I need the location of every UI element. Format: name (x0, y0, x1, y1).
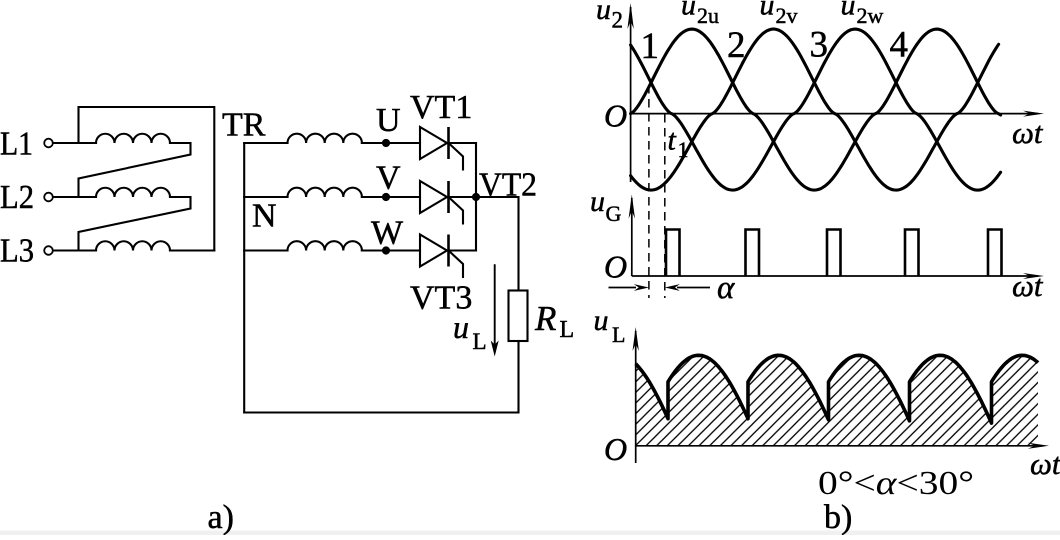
svg-text:ωt: ωt (1030, 446, 1060, 481)
svg-text:VT1: VT1 (410, 89, 472, 126)
svg-text:1: 1 (641, 26, 660, 67)
svg-text:TR: TR (222, 107, 266, 144)
svg-text:G: G (606, 201, 622, 226)
svg-text:b): b) (824, 499, 852, 535)
svg-text:N: N (252, 198, 277, 235)
svg-text:L: L (473, 329, 487, 354)
svg-text:L: L (560, 317, 575, 343)
svg-text:u: u (594, 304, 609, 337)
svg-text:a): a) (208, 499, 234, 535)
svg-text:4: 4 (890, 25, 909, 66)
svg-text:R: R (534, 299, 556, 338)
svg-text:L2: L2 (0, 179, 34, 216)
svg-text:t: t (668, 124, 677, 157)
svg-text:u: u (841, 0, 856, 22)
svg-text:u: u (596, 0, 611, 26)
svg-text:1: 1 (678, 137, 689, 162)
svg-text:V: V (376, 160, 401, 197)
svg-text:U: U (376, 102, 401, 139)
svg-text:2v: 2v (776, 3, 798, 28)
svg-text:ωt: ωt (1012, 115, 1044, 150)
svg-text:2u: 2u (697, 3, 719, 28)
svg-text:O: O (604, 98, 627, 134)
svg-text:L1: L1 (0, 126, 33, 163)
svg-text:u: u (760, 0, 775, 22)
svg-text:2: 2 (727, 25, 746, 66)
svg-text:3: 3 (810, 25, 829, 66)
svg-text:L: L (612, 322, 625, 347)
svg-text:2: 2 (612, 8, 624, 33)
svg-text:O: O (604, 249, 627, 285)
svg-text:α: α (717, 270, 735, 306)
svg-text:0°<α<30°: 0°<α<30° (818, 465, 974, 502)
svg-text:L3: L3 (0, 233, 34, 270)
svg-text:u: u (453, 309, 469, 345)
svg-text:W: W (371, 215, 404, 252)
svg-text:2w: 2w (857, 3, 884, 28)
svg-text:u: u (681, 0, 696, 22)
svg-text:O: O (604, 431, 627, 467)
svg-text:ωt: ωt (1012, 268, 1044, 303)
svg-text:VT2: VT2 (479, 167, 537, 204)
svg-text:u: u (590, 185, 605, 218)
